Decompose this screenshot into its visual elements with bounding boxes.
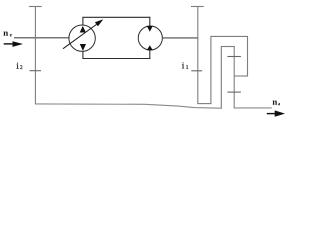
motor M1: fixed displacement motor circle xyxy=(138,26,162,50)
wire: motor output line to right shaft xyxy=(162,37,198,39)
label n of n_a (output speed) xyxy=(273,101,278,105)
gear tick on C4 lower xyxy=(227,91,241,93)
subscript e "e" xyxy=(10,34,12,37)
label i of i1 (gear ratio 1) xyxy=(182,62,184,68)
wire: input shaft line xyxy=(14,37,69,39)
motor top arrowhead (inward) xyxy=(147,26,153,32)
shaft C4: output shaft xyxy=(233,47,235,108)
wire: outer summing frame top xyxy=(210,35,248,37)
pump U1: variable displacement pump circle xyxy=(69,25,95,51)
gear tick i1 xyxy=(191,70,202,72)
shaft C5 xyxy=(247,36,249,76)
wire: U-bottom C4-C5 xyxy=(234,75,248,77)
motor bottom stub xyxy=(149,50,151,59)
wire: bottom mechanical line (slightly sagging scan) xyxy=(35,104,221,108)
label i of i2 (gear ratio 2) xyxy=(16,63,18,69)
wire: hydraulic line bottom xyxy=(82,58,150,60)
pump top flow arrowhead xyxy=(80,26,86,33)
input speed arrow xyxy=(4,41,23,47)
variable displacement diagonal arrow xyxy=(63,24,97,48)
shaft C1: hydro branch vertical xyxy=(197,7,199,104)
wire: hydraulic line top xyxy=(82,16,150,18)
wire: output line to n_a xyxy=(234,107,272,109)
subscript a "a" xyxy=(278,103,280,105)
motor top stub xyxy=(149,17,151,27)
wire: U-bottom C1-C2 xyxy=(197,103,211,105)
motor bottom arrowhead (inward) xyxy=(147,45,153,50)
shaft C3 xyxy=(220,47,222,109)
T-cap top of right shaft xyxy=(191,6,204,8)
shaft C2 xyxy=(210,36,212,104)
pump bottom flow arrowhead xyxy=(80,44,86,51)
shaft: left vertical (gear shaft) xyxy=(34,7,36,105)
T-cap top of left shaft xyxy=(29,6,42,8)
gear tick i2 xyxy=(30,70,42,72)
subscript 2 "2" xyxy=(20,65,22,69)
wire: pump bottom stub xyxy=(82,51,84,59)
gear tick on C4 upper xyxy=(227,56,241,58)
label n of n_e (input speed) xyxy=(3,32,8,36)
wire: inner summing frame top xyxy=(221,46,235,48)
subscript 1 "1" xyxy=(186,65,188,69)
output speed arrow xyxy=(267,110,285,116)
wire: pump top stub xyxy=(82,17,84,25)
